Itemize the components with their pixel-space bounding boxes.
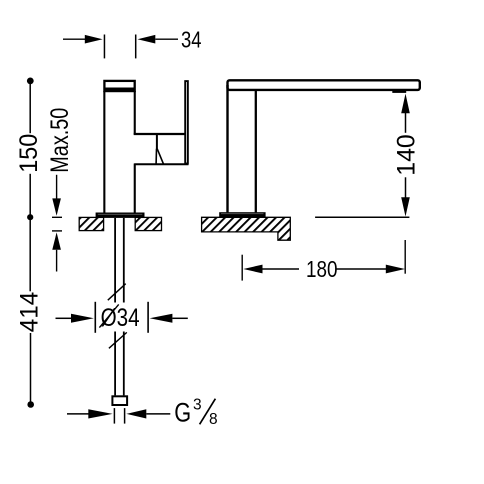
svg-text:180: 180 (306, 256, 338, 282)
svg-text:34: 34 (181, 27, 202, 53)
svg-text:8: 8 (209, 411, 218, 428)
svg-text:150: 150 (15, 134, 43, 173)
svg-text:Max.50: Max.50 (46, 108, 74, 173)
svg-text:140: 140 (393, 134, 421, 176)
svg-text:3: 3 (193, 397, 202, 414)
svg-text:414: 414 (16, 292, 44, 333)
svg-text:Ø34: Ø34 (101, 304, 140, 332)
svg-text:G: G (174, 398, 191, 428)
